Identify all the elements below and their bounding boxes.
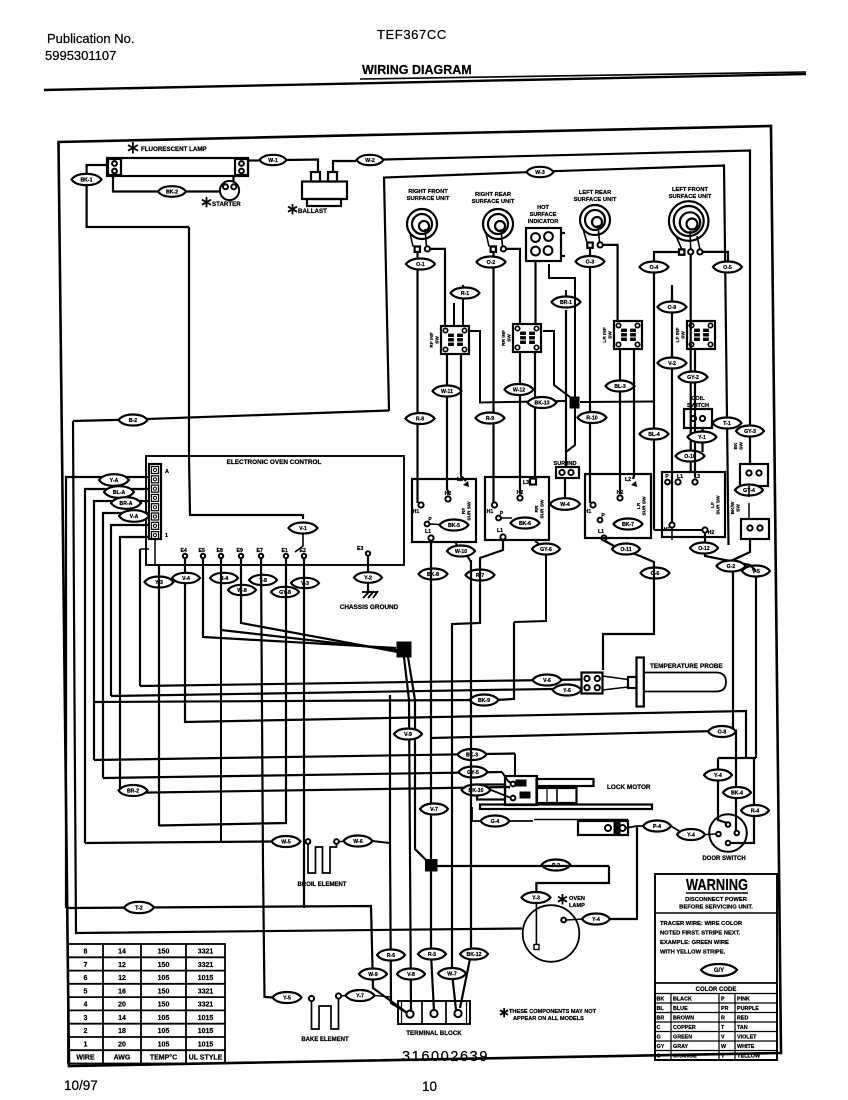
svg-text:SURFACE UNIT: SURFACE UNIT bbox=[407, 196, 450, 202]
wire B2 chain bbox=[514, 541, 546, 622]
svg-text:ELECTRONIC OVEN CONTROL: ELECTRONIC OVEN CONTROL bbox=[227, 459, 322, 466]
warning box bbox=[655, 874, 777, 1060]
connector R-8 bbox=[406, 413, 435, 424]
connector GY-6 bbox=[532, 544, 560, 555]
svg-text:E5: E5 bbox=[199, 548, 205, 554]
svg-text:150: 150 bbox=[158, 988, 170, 995]
svg-text:RR INF: RR INF bbox=[501, 330, 507, 346]
connector BL-A bbox=[104, 486, 134, 498]
svg-text:H2: H2 bbox=[708, 530, 715, 536]
svg-text:WHITE: WHITE bbox=[737, 1044, 755, 1050]
svg-text:O-3: O-3 bbox=[586, 260, 595, 266]
svg-text:BK-4: BK-4 bbox=[731, 791, 743, 797]
wire EOC row5 bbox=[111, 525, 149, 696]
header underline bbox=[360, 72, 806, 79]
connector Y-7 bbox=[346, 990, 375, 1001]
svg-text:E3: E3 bbox=[357, 546, 363, 552]
svg-text:O-1: O-1 bbox=[416, 262, 425, 268]
EOC E3 terminal bbox=[366, 551, 370, 555]
svg-text:20: 20 bbox=[118, 1042, 126, 1049]
wire TB v471 bbox=[460, 560, 471, 1008]
svg-text:V-6: V-6 bbox=[543, 678, 551, 684]
svg-text:BK: BK bbox=[657, 997, 665, 1003]
fluorescent lamp FL1 bbox=[107, 158, 248, 176]
svg-text:R-4: R-4 bbox=[751, 809, 759, 815]
wire RR switch drop H2 bbox=[520, 352, 521, 494]
svg-text:Y-4: Y-4 bbox=[687, 833, 695, 839]
svg-text:L2: L2 bbox=[625, 477, 631, 483]
oven lamp stem bbox=[535, 902, 537, 945]
switch detail LF bbox=[662, 472, 725, 537]
connector BK-12 bbox=[460, 949, 488, 960]
svg-text:INDICATOR: INDICATOR bbox=[528, 219, 559, 225]
svg-text:L1: L1 bbox=[598, 529, 604, 535]
connector BK-2 bbox=[158, 186, 186, 197]
svg-text:105: 105 bbox=[158, 975, 170, 982]
svg-text:16: 16 bbox=[118, 988, 126, 995]
wire oven lamp top bbox=[536, 866, 609, 892]
wire B L1 drop bbox=[452, 540, 503, 701]
connector V-A bbox=[119, 510, 149, 522]
connector E1c bbox=[291, 578, 319, 588]
svg-text:SW: SW bbox=[507, 334, 513, 342]
connector W-11 bbox=[433, 386, 462, 397]
svg-text:Y-1: Y-1 bbox=[698, 435, 706, 441]
connector Y-5 bbox=[273, 992, 302, 1003]
connector BK-10 bbox=[462, 785, 491, 796]
svg-text:E7: E7 bbox=[257, 548, 263, 554]
svg-text:SW: SW bbox=[736, 504, 742, 512]
svg-text:SUR SW: SUR SW bbox=[467, 501, 473, 521]
svg-text:VIOLET: VIOLET bbox=[737, 1035, 757, 1041]
connector V-9 bbox=[394, 729, 422, 740]
connector BR-2 bbox=[119, 785, 148, 796]
svg-text:Y-3: Y-3 bbox=[532, 896, 540, 902]
wire bus L4 bbox=[94, 754, 515, 761]
connector R-6 bbox=[377, 950, 405, 961]
svg-text:E2: E2 bbox=[300, 548, 306, 554]
svg-text:TAN: TAN bbox=[737, 1025, 748, 1031]
connector Y-6 bbox=[553, 685, 582, 696]
svg-text:PURPLE: PURPLE bbox=[737, 1006, 759, 1012]
svg-text:4: 4 bbox=[84, 1002, 88, 1009]
svg-text:L1: L1 bbox=[497, 528, 503, 534]
svg-text:GY-6: GY-6 bbox=[540, 547, 552, 553]
svg-text:LF INF: LF INF bbox=[675, 327, 681, 342]
connector BK-1 bbox=[72, 174, 102, 185]
svg-text:12: 12 bbox=[118, 975, 126, 982]
svg-text:BK-2: BK-2 bbox=[166, 190, 178, 196]
switch detail LR bbox=[585, 474, 651, 538]
svg-text:W-10: W-10 bbox=[455, 549, 467, 555]
svg-text:10/97: 10/97 bbox=[64, 1078, 98, 1093]
svg-text:LOCK MOTOR: LOCK MOTOR bbox=[607, 784, 651, 791]
svg-text:RIGHT FRONT: RIGHT FRONT bbox=[408, 189, 448, 195]
connector BK-7 bbox=[614, 519, 643, 530]
EOC E terminals bbox=[183, 554, 187, 558]
svg-text:L3: L3 bbox=[523, 480, 529, 486]
wire gauge table bbox=[68, 944, 225, 1064]
svg-text:RED: RED bbox=[737, 1016, 748, 1022]
wire LF H2 link bbox=[654, 529, 702, 531]
svg-text:CHASSIS GROUND: CHASSIS GROUND bbox=[340, 604, 399, 611]
connector O-8 bbox=[708, 726, 736, 737]
wire TB v431 bbox=[431, 871, 434, 1011]
svg-text:W-5: W-5 bbox=[281, 840, 291, 846]
connector BL-4 bbox=[640, 429, 669, 440]
svg-text:BROIL ELEMENT: BROIL ELEMENT bbox=[298, 882, 347, 888]
connector R-7 bbox=[466, 570, 495, 581]
svg-text:P: P bbox=[428, 517, 432, 523]
svg-text:O-2: O-2 bbox=[487, 260, 496, 266]
switch LR INF SW bbox=[614, 321, 642, 349]
svg-text:V-A: V-A bbox=[130, 514, 139, 520]
svg-text:SURFACE UNIT: SURFACE UNIT bbox=[669, 194, 712, 200]
lock motor bar top bbox=[537, 779, 594, 786]
wire bus L1 temp probe upper bbox=[140, 680, 582, 687]
connector BK-13 bbox=[528, 397, 557, 408]
connector Y-4e bbox=[677, 829, 705, 840]
connector Y-3b bbox=[522, 892, 551, 903]
wire E4 drop bbox=[185, 558, 746, 758]
wire bus L6 bbox=[120, 787, 510, 793]
svg-text:8: 8 bbox=[84, 949, 88, 956]
svg-text:LAMP: LAMP bbox=[569, 903, 585, 909]
wire top run to right trunk bbox=[384, 151, 751, 465]
svg-text:18: 18 bbox=[118, 1028, 126, 1035]
svg-text:E8: E8 bbox=[217, 548, 223, 554]
svg-text:OVEN: OVEN bbox=[569, 896, 585, 902]
connector P-2 bbox=[542, 860, 571, 871]
wire LR right terminal bbox=[603, 245, 618, 321]
svg-text:WITH YELLOW STRIPE.: WITH YELLOW STRIPE. bbox=[660, 950, 726, 956]
wire connector to ballast bbox=[287, 160, 319, 173]
wire bk sw link bbox=[748, 486, 750, 497]
wire LF right terminal bbox=[703, 252, 729, 272]
svg-text:3: 3 bbox=[84, 1015, 88, 1022]
svg-text:BR: BR bbox=[657, 1016, 665, 1022]
wire coil switch drop bbox=[701, 428, 703, 452]
svg-text:20: 20 bbox=[118, 1002, 126, 1009]
lock motor bar mid bbox=[537, 788, 577, 803]
ballast T1 bbox=[311, 172, 320, 182]
svg-text:W-11: W-11 bbox=[441, 389, 453, 395]
svg-text:Y-6: Y-6 bbox=[563, 688, 571, 694]
svg-text:3321: 3321 bbox=[198, 1002, 214, 1009]
connector BR-1 bbox=[552, 297, 581, 308]
wire LF H1 drop bbox=[671, 528, 673, 541]
wire RF left terminal drop bbox=[416, 252, 418, 503]
svg-text:7: 7 bbox=[84, 962, 88, 969]
svg-text:RIGHT REAR: RIGHT REAR bbox=[475, 192, 512, 198]
svg-text:AWG: AWG bbox=[114, 1055, 131, 1062]
wire lamp left lower to starter bbox=[113, 176, 158, 192]
svg-text:SUR SW: SUR SW bbox=[540, 499, 546, 519]
svg-text:E1: E1 bbox=[282, 548, 288, 554]
svg-text:LEFT REAR: LEFT REAR bbox=[579, 190, 612, 196]
lock motor lower line bbox=[534, 819, 628, 821]
oven lamp circle bbox=[523, 905, 580, 962]
wire bake right bbox=[341, 995, 346, 998]
wire EOC-A row bbox=[66, 477, 149, 908]
wire D H2 drop bbox=[705, 533, 756, 572]
svg-text:GY-5: GY-5 bbox=[467, 770, 479, 776]
svg-text:DISCONNECT POWER: DISCONNECT POWER bbox=[685, 897, 748, 903]
svg-text:14: 14 bbox=[118, 949, 126, 956]
connector B-2 bbox=[119, 415, 148, 426]
svg-text:V-1: V-1 bbox=[299, 526, 307, 532]
small switch BK/W SW bbox=[741, 519, 769, 539]
wire SQ1 right out bbox=[580, 401, 654, 404]
wire LF mid terminal drop bbox=[690, 255, 692, 473]
connector W-3 on enclosure top bbox=[527, 167, 554, 177]
connector W-6 bbox=[344, 836, 373, 847]
label starter bbox=[206, 197, 208, 207]
svg-text:BR-1: BR-1 bbox=[560, 300, 572, 306]
wire LF switch drop right bbox=[694, 349, 696, 477]
svg-text:R-8: R-8 bbox=[416, 417, 424, 423]
wire V-1 to E1 bbox=[295, 534, 303, 552]
svg-text:BALLAST: BALLAST bbox=[298, 208, 327, 215]
wire EOC row7 lower bbox=[154, 539, 156, 565]
wire lamp right to connector E-1 bbox=[248, 159, 259, 161]
connector O-2 bbox=[477, 257, 506, 268]
svg-text:B-2: B-2 bbox=[129, 418, 137, 424]
svg-text:COPPER: COPPER bbox=[673, 1025, 696, 1031]
svg-text:GY-2: GY-2 bbox=[687, 375, 699, 381]
svg-text:YELLOW: YELLOW bbox=[737, 1054, 761, 1060]
connector O-9 bbox=[658, 302, 687, 313]
svg-text:G-2: G-2 bbox=[727, 564, 736, 570]
connector W-1 bbox=[260, 155, 287, 165]
svg-text:BK/W: BK/W bbox=[730, 501, 736, 514]
svg-text:PINK: PINK bbox=[737, 997, 750, 1003]
wire bus L2b bbox=[94, 700, 484, 702]
surface section enclosure bbox=[384, 172, 527, 411]
svg-text:TERMINAL BLOCK: TERMINAL BLOCK bbox=[406, 1030, 462, 1037]
wire A2 chain bbox=[455, 542, 471, 562]
svg-text:BR-A: BR-A bbox=[120, 501, 133, 507]
svg-text:COLOR CODE: COLOR CODE bbox=[696, 987, 737, 993]
wire SQ2 out A bbox=[404, 657, 411, 1012]
svg-text:LF: LF bbox=[710, 502, 716, 508]
svg-text:HOT: HOT bbox=[537, 205, 549, 211]
connector O-11 bbox=[612, 544, 640, 555]
connector W-12 bbox=[505, 384, 534, 395]
wire LR switch drop H2 bbox=[619, 349, 621, 494]
connector GY-4 bbox=[735, 485, 763, 496]
wire E7 drop bbox=[261, 558, 273, 998]
svg-text:WIRING DIAGRAM: WIRING DIAGRAM bbox=[362, 63, 472, 77]
svg-text:SURFACE: SURFACE bbox=[530, 212, 557, 218]
svg-text:SW: SW bbox=[435, 336, 441, 344]
wire RR right terminal bbox=[506, 249, 520, 324]
connector R-4d bbox=[741, 805, 769, 816]
connector O-10 bbox=[676, 451, 705, 462]
wire BR-1 top stub bbox=[565, 290, 567, 297]
svg-text:O-4: O-4 bbox=[650, 265, 659, 271]
svg-text:Y-4: Y-4 bbox=[714, 773, 722, 779]
svg-text:BEFORE SERVICING UNIT.: BEFORE SERVICING UNIT. bbox=[679, 905, 753, 911]
svg-text:E4: E4 bbox=[181, 548, 187, 554]
wire broil right bbox=[339, 841, 343, 843]
connector O-4 bbox=[640, 262, 669, 273]
connector V-8 bbox=[397, 969, 425, 980]
wire E1 drop bbox=[159, 558, 286, 826]
svg-text:G-4: G-4 bbox=[491, 819, 500, 825]
svg-text:WIRE: WIRE bbox=[76, 1055, 95, 1062]
starter S1 bbox=[220, 181, 239, 200]
connector BK-6 bbox=[511, 518, 540, 529]
connector Y-A bbox=[99, 474, 129, 486]
svg-text:APPEAR ON ALL MODELS: APPEAR ON ALL MODELS bbox=[513, 1016, 584, 1022]
EOC internal partition bbox=[189, 456, 303, 519]
LF coil terminals bbox=[679, 249, 684, 254]
sur ind pilot bbox=[556, 467, 579, 478]
connector V-1 bbox=[289, 523, 318, 534]
svg-text:A: A bbox=[165, 469, 169, 475]
svg-text:SW: SW bbox=[739, 442, 745, 450]
svg-text:H2: H2 bbox=[517, 490, 524, 496]
wire HSI drops bbox=[534, 261, 536, 324]
svg-text:PR: PR bbox=[721, 1006, 729, 1012]
wire box B P link bbox=[501, 517, 512, 519]
wire door distribution bar bbox=[718, 757, 756, 759]
svg-text:FLUORESCENT LAMP: FLUORESCENT LAMP bbox=[141, 146, 207, 153]
wire ballast to top run bbox=[333, 161, 356, 172]
svg-text:GY-3: GY-3 bbox=[744, 429, 756, 435]
svg-text:H1: H1 bbox=[585, 509, 592, 515]
surface unit LF coil bbox=[669, 201, 709, 241]
label fluorescent lamp bbox=[132, 142, 134, 153]
svg-text:105: 105 bbox=[158, 1028, 170, 1035]
svg-text:P-4: P-4 bbox=[653, 824, 661, 830]
svg-text:H2: H2 bbox=[445, 491, 452, 497]
svg-text:1015: 1015 bbox=[198, 1042, 214, 1049]
svg-text:1015: 1015 bbox=[198, 975, 214, 982]
wire y908 run bbox=[66, 906, 406, 1012]
svg-text:BK-6: BK-6 bbox=[519, 521, 531, 527]
svg-text:12: 12 bbox=[118, 962, 126, 969]
wire bk/w sw drop bbox=[733, 539, 750, 731]
svg-text:Y: Y bbox=[721, 1054, 725, 1060]
svg-text:W-12: W-12 bbox=[513, 388, 525, 394]
svg-text:R-1: R-1 bbox=[461, 291, 469, 297]
connector W-5 bbox=[272, 836, 301, 847]
svg-text:O-9: O-9 bbox=[668, 305, 677, 311]
svg-text:R-10: R-10 bbox=[586, 416, 597, 422]
connector BK-3 bbox=[458, 749, 487, 760]
svg-text:C: C bbox=[657, 1025, 661, 1031]
connector T-2 bbox=[124, 902, 154, 913]
svg-text:W-6: W-6 bbox=[353, 839, 363, 845]
connector BL-3 bbox=[606, 381, 635, 392]
svg-text:BK: BK bbox=[733, 442, 739, 449]
wire TB v454 bbox=[452, 700, 456, 1010]
svg-text:P: P bbox=[500, 511, 504, 517]
wire door bottom feed bbox=[730, 758, 754, 843]
svg-text:V-7: V-7 bbox=[430, 807, 438, 813]
wire door top feed bbox=[718, 758, 727, 823]
connector O-12 bbox=[690, 543, 718, 554]
svg-text:L2: L2 bbox=[457, 477, 463, 483]
wire LF switch drop left bbox=[671, 285, 673, 522]
svg-text:1015: 1015 bbox=[198, 1015, 214, 1022]
connector G/Y bbox=[701, 964, 737, 976]
connector E8c bbox=[228, 585, 256, 595]
svg-text:V-8: V-8 bbox=[407, 972, 415, 978]
coil switch bbox=[684, 409, 712, 428]
connector Y-1 bbox=[688, 432, 717, 443]
svg-text:LR: LR bbox=[636, 502, 642, 509]
connector O-6 bbox=[641, 568, 670, 579]
svg-text:RR: RR bbox=[534, 505, 540, 512]
wire bake feed bbox=[273, 997, 276, 999]
temperature probe bbox=[628, 677, 637, 688]
wire lock box to P-4 bbox=[626, 826, 644, 828]
switch LF INF SW bbox=[687, 321, 715, 349]
connector R-10 bbox=[578, 412, 607, 423]
wire BK-10 bbox=[491, 790, 510, 798]
svg-text:TEF367CC: TEF367CC bbox=[377, 27, 447, 42]
wire EOC row3 bbox=[94, 501, 149, 760]
connector E5c bbox=[210, 573, 238, 583]
svg-text:SUR SW: SUR SW bbox=[716, 495, 722, 515]
svg-text:T-1: T-1 bbox=[723, 421, 731, 427]
svg-text:H1: H1 bbox=[487, 509, 494, 515]
svg-text:BAKE ELEMENT: BAKE ELEMENT bbox=[301, 1037, 349, 1043]
svg-text:3321: 3321 bbox=[198, 962, 214, 969]
switch detail RF bbox=[412, 479, 476, 542]
black junction SQ1 bbox=[570, 397, 579, 408]
svg-text:10: 10 bbox=[422, 1079, 437, 1094]
svg-text:Y-7: Y-7 bbox=[356, 994, 364, 1000]
wire left bus to enclosure bbox=[73, 420, 133, 422]
svg-text:150: 150 bbox=[158, 949, 170, 956]
connector Y-4d bbox=[704, 770, 732, 781]
svg-text:O: O bbox=[657, 1054, 661, 1060]
wire bus L1 head bbox=[140, 548, 149, 550]
svg-text:TRACER WIRE: WIRE COLOR: TRACER WIRE: WIRE COLOR bbox=[660, 921, 743, 927]
connector Y-4f bbox=[582, 914, 610, 925]
svg-text:T-2: T-2 bbox=[135, 906, 143, 912]
svg-text:SUR SW: SUR SW bbox=[642, 496, 648, 516]
connector E7c bbox=[271, 587, 299, 597]
connector V-6 bbox=[533, 675, 562, 686]
wire BK-3 bbox=[514, 754, 516, 777]
svg-text:BL: BL bbox=[657, 1006, 665, 1012]
svg-text:14: 14 bbox=[118, 1015, 126, 1022]
svg-text:3321: 3321 bbox=[198, 949, 214, 956]
connector W-7 bbox=[438, 968, 466, 979]
wire SQ1 vertical bbox=[549, 264, 575, 397]
electronic oven control box bbox=[146, 456, 404, 565]
wire connector to starter bbox=[186, 190, 221, 192]
svg-text:ORANGE: ORANGE bbox=[673, 1054, 697, 1060]
note components bbox=[503, 1008, 505, 1017]
connector GY-3 bbox=[736, 426, 764, 437]
svg-text:SURFACE UNIT: SURFACE UNIT bbox=[574, 197, 617, 203]
connector BK-4 bbox=[723, 787, 751, 798]
svg-text:TEMPERATURE PROBE: TEMPERATURE PROBE bbox=[650, 663, 723, 670]
hot surface indicator bbox=[526, 228, 561, 261]
svg-text:R-5: R-5 bbox=[428, 952, 436, 958]
connector R-1 bbox=[451, 288, 480, 299]
svg-text:W-7: W-7 bbox=[447, 972, 457, 978]
color code table bbox=[655, 983, 777, 1060]
connector E4c bbox=[172, 573, 200, 583]
LR coil terminals bbox=[587, 243, 592, 248]
